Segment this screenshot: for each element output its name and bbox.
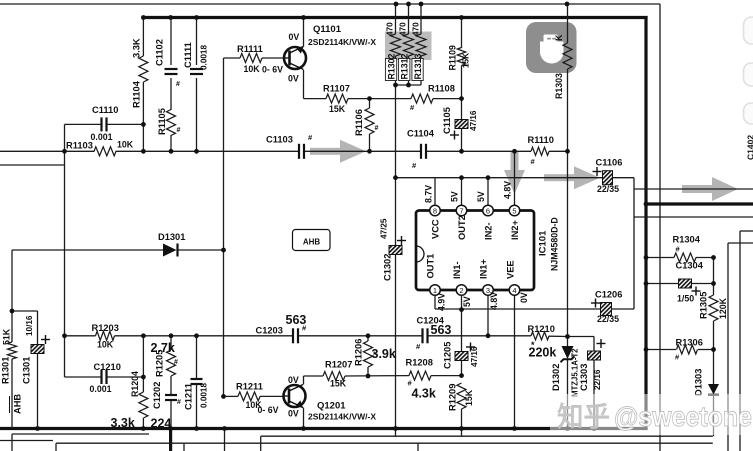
svg-text:C1105: C1105: [442, 107, 452, 134]
svg-text:C1203: C1203: [256, 326, 283, 336]
svg-text:R1204: R1204: [130, 371, 140, 397]
svg-text:#: #: [176, 81, 180, 88]
svg-text:R1104: R1104: [132, 80, 142, 108]
svg-text:R1301: R1301: [1, 357, 11, 384]
svg-text:R1107: R1107: [323, 84, 350, 94]
svg-text:4.8V: 4.8V: [489, 292, 499, 310]
svg-text:15K: 15K: [330, 379, 347, 389]
svg-text:R1209: R1209: [448, 384, 458, 411]
svg-text:3.3k: 3.3k: [111, 416, 135, 430]
svg-text:0.001: 0.001: [90, 384, 112, 394]
svg-text:220k: 220k: [529, 346, 557, 360]
svg-text:120K: 120K: [718, 297, 728, 319]
svg-text:#: #: [174, 359, 178, 366]
svg-text:R1111: R1111: [237, 44, 263, 54]
svg-text:563: 563: [286, 313, 307, 327]
svg-text:10/16: 10/16: [25, 315, 34, 336]
svg-text:AHB: AHB: [13, 394, 23, 414]
svg-text:0V: 0V: [288, 375, 299, 385]
svg-text:Q1101: Q1101: [313, 24, 342, 35]
svg-text:知乎: 知乎: [557, 401, 610, 432]
svg-text:IC101: IC101: [538, 230, 549, 256]
svg-text:R1210: R1210: [528, 324, 555, 334]
svg-text:IN2-: IN2-: [484, 222, 494, 240]
svg-text:R1313: R1313: [413, 53, 423, 79]
svg-text:C1103: C1103: [266, 135, 293, 145]
svg-text:*: *: [373, 350, 377, 360]
svg-text:C1104: C1104: [407, 129, 435, 139]
svg-text:R1305: R1305: [699, 292, 709, 319]
svg-text:C1302: C1302: [383, 254, 393, 281]
svg-text:D1303: D1303: [694, 369, 704, 396]
svg-text:0V: 0V: [288, 409, 299, 419]
svg-text:R1203: R1203: [92, 323, 119, 333]
svg-text:R1205: R1205: [155, 350, 165, 377]
svg-text:6: 6: [486, 207, 490, 216]
svg-text:D1302: D1302: [551, 364, 561, 391]
svg-text:#: #: [375, 125, 379, 132]
svg-text:VEE: VEE: [506, 260, 516, 279]
svg-text:51K: 51K: [2, 328, 12, 345]
svg-text:563: 563: [431, 323, 452, 337]
svg-text:470: 470: [386, 22, 395, 36]
svg-text:C1301: C1301: [22, 357, 32, 384]
svg-text:K: K: [554, 34, 564, 41]
svg-text:22/35: 22/35: [597, 184, 619, 194]
svg-text:0.0018: 0.0018: [200, 383, 209, 408]
svg-text:IN1-: IN1-: [452, 261, 462, 279]
svg-text:0V: 0V: [289, 32, 300, 42]
svg-text:C1110: C1110: [92, 105, 118, 115]
svg-text:22/35: 22/35: [597, 314, 619, 324]
svg-text:OUT2: OUT2: [457, 215, 467, 240]
svg-text:R1106: R1106: [354, 109, 364, 136]
svg-text:C1202: C1202: [152, 382, 162, 409]
svg-text:D1301: D1301: [158, 232, 185, 242]
svg-text:R1109: R1109: [448, 45, 458, 71]
svg-text:R1306: R1306: [676, 338, 703, 348]
svg-text:0.001: 0.001: [91, 132, 113, 142]
svg-text:C1205: C1205: [443, 342, 453, 369]
svg-text:R1304: R1304: [673, 235, 701, 245]
svg-text:VCC: VCC: [431, 219, 441, 239]
svg-text:R1302: R1302: [387, 53, 397, 79]
svg-text:#: #: [177, 399, 181, 406]
svg-text:C1106: C1106: [596, 158, 623, 168]
svg-text:7: 7: [459, 207, 463, 216]
svg-text:C1206: C1206: [595, 290, 622, 300]
svg-text:8: 8: [433, 207, 437, 216]
svg-text:2SD2114K/VW/-X: 2SD2114K/VW/-X: [308, 37, 376, 47]
svg-text:R1211: R1211: [236, 382, 263, 392]
svg-text:NJM4580D-D: NJM4580D-D: [550, 217, 560, 271]
svg-text:4.9V: 4.9V: [437, 293, 447, 311]
svg-text:4.3k: 4.3k: [412, 387, 436, 401]
svg-text:R1312: R1312: [400, 53, 410, 79]
svg-text:0V: 0V: [519, 292, 529, 303]
svg-text:0V: 0V: [288, 74, 299, 84]
svg-text:22/16: 22/16: [593, 369, 602, 390]
svg-text:47/16: 47/16: [470, 346, 479, 367]
svg-text:C1402: C1402: [746, 135, 753, 160]
svg-text:0.0018: 0.0018: [200, 45, 209, 70]
svg-text:4: 4: [512, 286, 516, 295]
svg-text:0- 6V: 0- 6V: [262, 65, 283, 75]
svg-text:R1108: R1108: [428, 84, 455, 94]
svg-text:R1105: R1105: [157, 108, 167, 135]
svg-text:8.7V: 8.7V: [424, 185, 434, 203]
svg-text:3.3K: 3.3K: [132, 38, 142, 58]
svg-text:C1211: C1211: [184, 383, 194, 410]
svg-text:5: 5: [512, 207, 516, 216]
svg-text:OUT1: OUT1: [426, 254, 436, 279]
svg-text:C1303: C1303: [579, 364, 589, 391]
svg-text:224: 224: [151, 417, 172, 431]
svg-text:47/25: 47/25: [380, 218, 389, 239]
svg-text:5V: 5V: [450, 191, 460, 202]
svg-text:0- 6V: 0- 6V: [258, 405, 279, 415]
svg-text:C1102: C1102: [155, 39, 165, 66]
svg-text:10K: 10K: [97, 340, 114, 350]
svg-text:5V: 5V: [476, 191, 486, 202]
svg-text:AHB: AHB: [303, 238, 321, 247]
svg-text:10K: 10K: [244, 64, 261, 74]
svg-text:#: #: [177, 127, 181, 134]
svg-text:1/50: 1/50: [677, 294, 694, 304]
svg-text:2SD2114K/VW/-X: 2SD2114K/VW/-X: [308, 412, 376, 422]
svg-text:Q1201: Q1201: [317, 401, 346, 412]
svg-text:C1111: C1111: [183, 42, 193, 68]
svg-text:R1303: R1303: [554, 73, 564, 99]
svg-text:15K: 15K: [329, 104, 346, 114]
svg-text:2: 2: [459, 286, 463, 295]
svg-text:R1207: R1207: [325, 360, 352, 370]
svg-text:R1206: R1206: [354, 339, 364, 366]
svg-text:15K: 15K: [462, 53, 471, 68]
svg-text:5V: 5V: [462, 296, 472, 307]
svg-text:4.8V: 4.8V: [503, 181, 513, 199]
svg-text:R1110: R1110: [528, 135, 554, 145]
svg-text:R1103: R1103: [66, 141, 93, 151]
svg-text:C1210: C1210: [94, 362, 121, 372]
svg-text:47/16: 47/16: [469, 110, 478, 131]
svg-text:470: 470: [412, 22, 421, 36]
svg-text:C1304: C1304: [676, 261, 704, 271]
svg-text:10K: 10K: [117, 140, 134, 150]
svg-text:15K: 15K: [464, 389, 474, 406]
svg-text:IN2+: IN2+: [510, 220, 520, 240]
svg-text:@sweetone: @sweetone: [614, 401, 752, 432]
svg-text:470: 470: [399, 22, 408, 36]
svg-text:IN1+: IN1+: [479, 259, 489, 279]
svg-text:R1208: R1208: [406, 358, 433, 368]
